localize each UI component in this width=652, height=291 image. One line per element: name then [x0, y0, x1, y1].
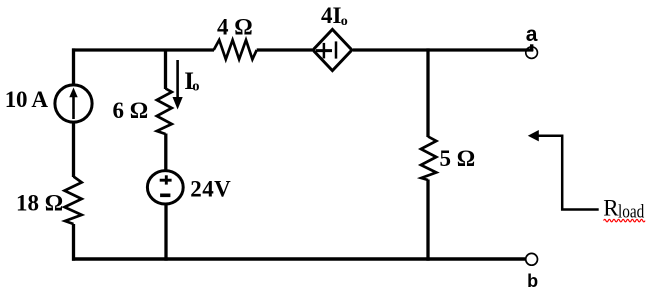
svg-text:4 Ω: 4 Ω [217, 15, 253, 40]
svg-text:a: a [526, 23, 538, 46]
label 10 A [5, 87, 49, 112]
svg-text:b: b [527, 271, 538, 291]
wire: right branch bottom [426, 180, 429, 261]
label R_load [603, 196, 645, 223]
label a [526, 23, 538, 46]
label 6 ohm [113, 98, 149, 123]
voltage source 24V [147, 171, 183, 204]
wire: left branch middle [72, 124, 75, 178]
dependent source 4Io diamond [313, 29, 352, 70]
current arrow Io [173, 60, 183, 110]
terminal b [526, 253, 538, 265]
label 4 ohm [217, 15, 253, 40]
wire: dependent source to terminal a [353, 44, 533, 51]
resistor 5 ohm [421, 137, 436, 181]
resistor 18 ohm [65, 177, 82, 225]
svg-text:4I: 4I [321, 3, 342, 28]
wire: left branch top [72, 48, 75, 84]
label b [527, 271, 538, 291]
wire: 24V to bottom rail [164, 204, 167, 261]
R_load pointer arrow [528, 130, 599, 210]
resistor 4 ohm [214, 40, 257, 59]
resistor 6 ohm [157, 89, 172, 135]
label 4Io [321, 3, 348, 29]
wire: bottom rail [72, 257, 525, 260]
svg-text:6 Ω: 6 Ω [113, 98, 149, 123]
svg-text:R: R [603, 196, 619, 221]
svg-text:o: o [341, 14, 348, 29]
svg-text:5 Ω: 5 Ω [440, 146, 476, 171]
label 18 ohm [16, 191, 63, 216]
svg-text:18 Ω: 18 Ω [16, 191, 63, 216]
label 24V [190, 177, 231, 202]
wire: left branch bottom [72, 224, 75, 261]
wire: 4 ohm to dependent source [257, 48, 312, 51]
terminal a [526, 47, 538, 59]
svg-text:24V: 24V [190, 177, 231, 202]
label Io [184, 68, 199, 95]
wire: top rail left segment [72, 48, 214, 51]
wire: right branch top [426, 48, 429, 137]
current source 10 A [55, 85, 92, 122]
svg-text:o: o [192, 78, 199, 94]
label 5 ohm [440, 146, 476, 171]
wire: middle branch top [164, 50, 167, 89]
svg-text:10 A: 10 A [5, 87, 49, 112]
wire: 6 ohm to 24V source [164, 134, 167, 171]
